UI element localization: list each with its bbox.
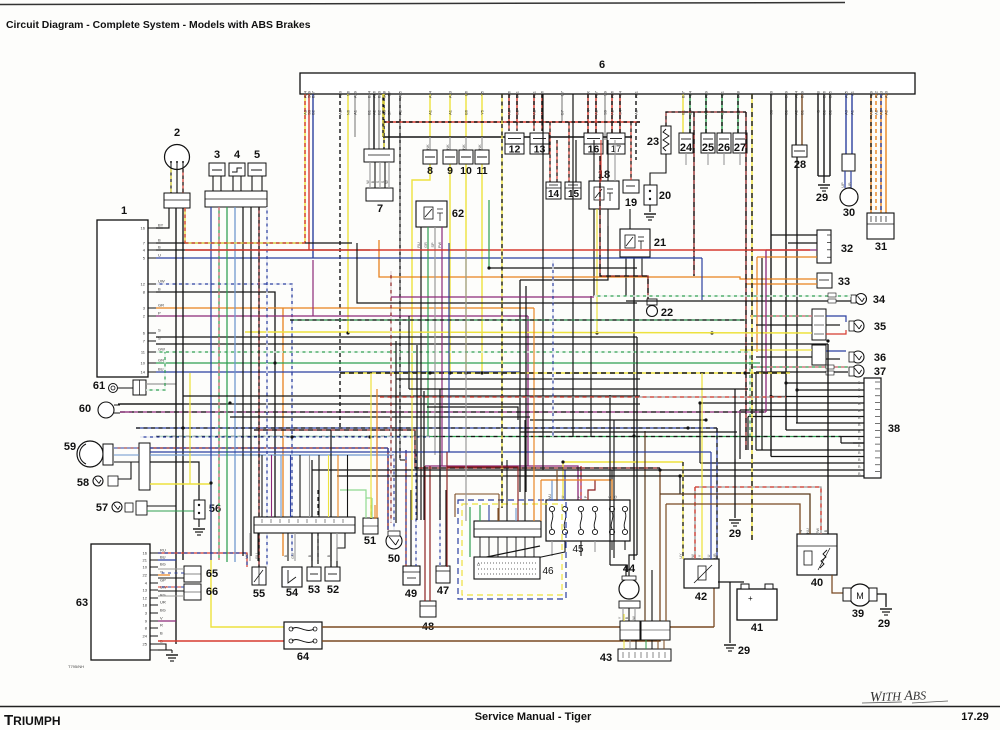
neutral switch 60 body — [98, 402, 114, 418]
orange mid verticals — [376, 389, 378, 518]
svg-text:W: W — [385, 180, 389, 184]
svg-text:32: 32 — [841, 243, 853, 255]
svg-text:S0: S0 — [769, 90, 774, 96]
switch 3 body — [209, 163, 225, 176]
ECU connector 1 body — [97, 220, 148, 377]
oil switch 61 glyph — [109, 384, 118, 393]
svg-text:US: US — [245, 553, 249, 559]
svg-text:17.29: 17.29 — [961, 711, 989, 723]
black riser 396 — [395, 341, 397, 523]
svg-text:62: 62 — [452, 208, 464, 220]
svg-text:A15: A15 — [398, 90, 403, 98]
wire BU from 1 — [156, 371, 520, 373]
wire B short 1 — [156, 242, 352, 244]
ground 29 top right — [818, 184, 830, 186]
svg-text:8: 8 — [427, 165, 433, 177]
yellow feed to 43 — [321, 621, 600, 633]
immobiliser 46 dashed screen inner — [462, 504, 562, 595]
fan resistor 42 body — [684, 559, 719, 588]
wire GN green long — [156, 362, 760, 364]
svg-text:A27: A27 — [594, 90, 599, 98]
wire U from 1 — [156, 257, 702, 259]
svg-text:A6: A6 — [507, 109, 512, 115]
svg-text:G7: G7 — [560, 90, 565, 96]
58 lead — [118, 462, 131, 479]
horn 30 body — [840, 188, 858, 206]
svg-text:24: 24 — [680, 142, 693, 154]
svg-text:29: 29 — [878, 618, 890, 630]
svg-text:B: B — [371, 180, 375, 183]
63 ground wires — [158, 644, 166, 650]
59 output Y — [150, 484, 284, 627]
fuse 10 body — [459, 150, 473, 164]
svg-text:UB: UB — [848, 182, 852, 188]
43 right top leads — [644, 431, 646, 621]
svg-text:A3: A3 — [338, 109, 343, 115]
fuse lower yellow wires — [412, 164, 430, 373]
svg-text:S: S — [158, 336, 161, 341]
47 top leads — [439, 455, 441, 566]
immobiliser 46 body — [474, 557, 540, 579]
svg-text:10: 10 — [460, 165, 472, 177]
svg-text:19: 19 — [625, 197, 637, 209]
headlamp 59 body — [77, 441, 103, 467]
switch 54 body — [282, 567, 302, 587]
pilot lamp 57 — [112, 502, 122, 512]
black run y432 — [520, 431, 737, 433]
black drop x573 — [572, 94, 574, 437]
ground right of 39 — [880, 608, 892, 610]
svg-text:B19: B19 — [800, 90, 805, 98]
clock lamp 50 — [386, 533, 402, 549]
ground feeder 735 — [734, 389, 736, 459]
yellow into 43 — [425, 373, 427, 500]
svg-text:W: W — [691, 554, 695, 558]
svg-text:G4: G4 — [688, 90, 693, 96]
svg-text:S9: S9 — [603, 109, 608, 115]
fuse 13 leads — [533, 122, 535, 131]
svg-text:13: 13 — [534, 144, 546, 156]
ground below 20 — [644, 213, 656, 215]
yellow mid vertical — [370, 373, 372, 518]
svg-text:40: 40 — [811, 577, 823, 589]
ground mid right — [729, 519, 741, 521]
svg-text:G1: G1 — [720, 90, 725, 96]
svg-text:29: 29 — [729, 528, 741, 540]
svg-text:31: 31 — [875, 241, 887, 253]
svg-text:O: O — [614, 495, 618, 498]
svg-text:GR: GR — [424, 242, 428, 248]
relay 21 top lead — [629, 209, 631, 229]
svg-text:26: 26 — [718, 142, 730, 154]
svg-text:A24: A24 — [794, 90, 799, 98]
svg-text:WU: WU — [548, 494, 552, 501]
battery 41 body — [737, 589, 777, 620]
34 feed wires — [750, 295, 851, 297]
svg-text:+: + — [748, 594, 753, 603]
svg-text:5: 5 — [254, 149, 260, 161]
svg-text:B1: B1 — [828, 109, 833, 115]
ABS 38 fan-in wires — [786, 382, 864, 384]
connector 43 strip — [618, 649, 671, 661]
svg-text:B: B — [158, 238, 161, 243]
purple-white riser 389 — [390, 271, 392, 523]
accessory harness dashed — [600, 156, 648, 299]
svg-text:38: 38 — [888, 423, 900, 435]
svg-text:15: 15 — [568, 189, 580, 200]
wire B short 2 — [156, 249, 370, 251]
svg-text:B: B — [160, 631, 163, 636]
svg-text:B: B — [284, 554, 288, 557]
45 top leads — [551, 480, 553, 500]
43 yellow feed — [321, 626, 560, 628]
black rail 34 — [626, 300, 756, 302]
blue dashed rail a — [136, 427, 717, 429]
svg-text:14: 14 — [548, 189, 560, 200]
svg-text:25: 25 — [702, 142, 714, 154]
59 link wires — [114, 447, 139, 449]
blue riser 449 — [448, 243, 450, 452]
ABS connector 38 body — [864, 378, 881, 478]
black run y303 — [357, 243, 637, 303]
49 top leads — [405, 450, 407, 566]
63 wire O — [158, 574, 170, 576]
yellow harness rail — [245, 331, 348, 333]
svg-text:RU: RU — [255, 553, 259, 559]
green dashed run y320 — [290, 319, 745, 321]
connector 55 bodies — [252, 567, 266, 585]
svg-text:66: 66 — [206, 586, 218, 598]
yellow rail long to 35 — [348, 332, 812, 333]
black mid rail a — [183, 395, 640, 397]
svg-text:A1: A1 — [532, 109, 537, 115]
black vertical right pair — [761, 258, 763, 450]
ground below 56 — [193, 528, 205, 530]
svg-text:B: B — [158, 287, 161, 292]
svg-text:63: 63 — [76, 597, 88, 609]
svg-text:Y: Y — [698, 554, 702, 557]
svg-text:24: 24 — [143, 634, 148, 639]
svg-text:GR: GR — [158, 303, 164, 308]
42 top leads — [682, 462, 684, 559]
63 wire R to fusebox — [158, 640, 284, 642]
svg-text:U: U — [707, 554, 711, 557]
45 orange elbow lead — [541, 480, 612, 500]
svg-text:A1: A1 — [353, 109, 358, 115]
svg-text:S9: S9 — [603, 90, 608, 96]
switch 52 body — [325, 567, 340, 581]
svg-text:GN: GN — [158, 358, 164, 363]
blue dashed rail b — [140, 436, 430, 438]
fuse 14 body — [546, 182, 561, 199]
44 connector — [619, 601, 640, 608]
diode 28 lower lead — [796, 157, 798, 423]
connector strip above 46 — [474, 521, 541, 537]
svg-text:O: O — [477, 562, 480, 567]
SP elbow to 49 — [400, 459, 405, 461]
strip upper feeds — [261, 455, 263, 517]
65 leads — [158, 568, 184, 570]
feed rail red — [383, 121, 640, 123]
switch 52-53 risers — [311, 460, 313, 567]
fuse 9 body — [443, 150, 457, 164]
diagnostic connector 66 body — [184, 584, 201, 600]
tail lamp 34 — [856, 294, 867, 305]
fuse 16 body — [584, 133, 603, 154]
svg-text:17: 17 — [611, 144, 622, 155]
clutch diode 7 upper — [364, 149, 394, 162]
strip lower stubs — [249, 533, 251, 561]
svg-text:N: N — [799, 529, 803, 532]
switch 3-5 leads — [212, 176, 214, 191]
svg-text:A6: A6 — [507, 90, 512, 96]
svg-text:A19: A19 — [353, 90, 358, 98]
svg-text:21: 21 — [654, 237, 666, 249]
black centre risers ext — [590, 296, 592, 437]
earth header 29 top — [818, 175, 830, 177]
svg-text:B17: B17 — [681, 90, 686, 98]
svg-text:53: 53 — [308, 584, 320, 596]
svg-text:V: V — [160, 616, 163, 621]
svg-text:BG: BG — [160, 608, 166, 613]
mid ground lead — [734, 459, 736, 518]
svg-text:12: 12 — [141, 282, 146, 287]
svg-text:35: 35 — [874, 321, 886, 333]
strip top leads — [479, 505, 481, 521]
36 feed wires — [740, 349, 812, 351]
45-46 jog wire — [482, 546, 540, 558]
dashed yellow auxiliary run — [751, 94, 753, 540]
svg-text:B: B — [816, 110, 821, 113]
svg-text:50: 50 — [388, 553, 400, 565]
svg-text:NK: NK — [426, 144, 430, 150]
diagnostic connector 65 body — [184, 566, 201, 582]
svg-text:Service Manual - Tiger: Service Manual - Tiger — [475, 711, 592, 723]
svg-text:UB: UB — [713, 553, 717, 559]
57 leads — [147, 505, 176, 507]
svg-text:A13: A13 — [448, 90, 453, 98]
svg-text:34: 34 — [873, 294, 886, 306]
connector 43 left body — [620, 621, 640, 640]
svg-text:B18: B18 — [736, 90, 741, 98]
svg-text:P: P — [584, 495, 588, 498]
svg-text:X: X — [586, 110, 591, 113]
svg-text:S4: S4 — [618, 90, 623, 96]
svg-text:27: 27 — [734, 142, 746, 154]
fuse 26 body — [717, 133, 731, 153]
svg-text:51: 51 — [364, 535, 376, 547]
purple run y297 — [391, 296, 594, 298]
svg-text:B: B — [816, 91, 821, 94]
relay 33 body — [817, 273, 832, 288]
svg-text:29: 29 — [816, 192, 828, 204]
svg-text:BY: BY — [158, 223, 164, 228]
svg-text:4: 4 — [234, 149, 241, 161]
svg-text:30: 30 — [843, 207, 855, 219]
svg-text:NK: NK — [446, 144, 450, 150]
svg-text:A1: A1 — [448, 109, 453, 115]
flasher relay 49 body — [403, 566, 420, 585]
fuse 14 leads — [549, 122, 551, 182]
svg-text:B6: B6 — [464, 109, 469, 115]
svg-text:43: 43 — [600, 652, 612, 664]
fuse 17 body — [607, 133, 625, 154]
63 wire V — [158, 620, 176, 622]
45 purple top lead — [580, 466, 582, 500]
immobiliser 46 dashed screen outer — [458, 500, 566, 599]
brake lamp connector 35 — [812, 309, 826, 340]
switch 53 body — [307, 567, 321, 581]
svg-text:A2: A2 — [540, 109, 545, 115]
svg-text:Y5: Y5 — [480, 90, 485, 96]
connector 43 right body — [641, 621, 670, 640]
svg-text:U: U — [561, 495, 565, 498]
grey-red dashed run y397 — [380, 396, 786, 398]
svg-text:Y5: Y5 — [480, 109, 485, 115]
svg-text:S0: S0 — [769, 109, 774, 115]
diode 19 body — [623, 180, 639, 193]
page top rule — [0, 3, 845, 5]
black mid rail d — [337, 475, 680, 477]
ABS ECU connector 63 body — [91, 544, 150, 660]
svg-text:A20: A20 — [884, 90, 889, 98]
svg-text:UY: UY — [679, 553, 683, 559]
svg-text:47: 47 — [437, 585, 449, 597]
svg-text:29: 29 — [738, 645, 750, 657]
fuse 25 body — [701, 133, 715, 153]
svg-text:A2: A2 — [610, 109, 615, 115]
svg-text:A2: A2 — [594, 109, 599, 115]
svg-text:A19: A19 — [704, 90, 709, 98]
48 top leads — [424, 466, 426, 601]
svg-text:A26: A26 — [610, 90, 615, 98]
svg-text:SP: SP — [387, 91, 392, 97]
42 bottom wire to battery — [701, 588, 703, 593]
svg-text:RU: RU — [417, 242, 421, 248]
fuse 24-27 lower stubs — [685, 153, 687, 165]
svg-text:22: 22 — [661, 307, 673, 319]
fuse 13 body — [530, 133, 549, 154]
black run y379 — [396, 378, 640, 380]
ignition feed dashed — [184, 208, 186, 243]
fuse 15 body — [565, 182, 581, 199]
handwritten WITH ABS note — [870, 688, 927, 705]
46 strip riser brown — [454, 494, 456, 517]
svg-text:A35: A35 — [844, 90, 849, 98]
resistor 23 leads — [666, 112, 746, 126]
svg-text:P: P — [577, 495, 581, 498]
svg-text:A11: A11 — [532, 90, 537, 98]
yellow black-dash rail — [340, 372, 790, 374]
number plate lamp 36 — [852, 351, 864, 363]
svg-text:A1: A1 — [398, 109, 403, 115]
40 to motor brown — [832, 575, 845, 593]
svg-text:A31: A31 — [634, 90, 639, 98]
svg-text:18: 18 — [143, 603, 148, 608]
ground below battery — [724, 644, 736, 646]
black run y389 — [409, 388, 748, 390]
59 output UW — [150, 454, 394, 456]
rail riser — [382, 94, 384, 137]
svg-text:U: U — [158, 253, 161, 258]
svg-text:B15: B15 — [828, 90, 833, 98]
svg-text:7: 7 — [377, 203, 383, 215]
resistor 20 ground lead — [649, 205, 651, 212]
svg-text:10: 10 — [141, 361, 146, 366]
relay 21 bottom leads — [625, 257, 627, 296]
switch pack 45 switches — [549, 506, 554, 511]
black riser 440 — [439, 389, 441, 520]
relay 47 body — [436, 566, 450, 583]
switch 5 body — [248, 163, 266, 176]
37 feed wires — [750, 366, 848, 368]
svg-text:14: 14 — [141, 370, 146, 375]
wire GW green dashed long — [156, 351, 750, 353]
connector 63 pin stubs — [150, 552, 158, 554]
svg-text:22: 22 — [143, 573, 148, 578]
svg-text:54: 54 — [286, 587, 299, 599]
63 wire RU — [158, 553, 247, 567]
horn 30 connector — [842, 154, 855, 171]
63 wire BU — [158, 559, 176, 561]
39 earth wire — [877, 594, 886, 607]
connector below switch 2 — [164, 193, 190, 208]
svg-text:59: 59 — [64, 441, 76, 453]
svg-text:55: 55 — [253, 588, 265, 600]
relay 62 body — [416, 201, 447, 227]
svg-text:41: 41 — [751, 622, 763, 634]
yellow rail mid — [563, 461, 683, 463]
violet left vertical — [175, 560, 177, 621]
40 top leads — [666, 504, 800, 534]
35 feed wires — [750, 315, 812, 317]
svg-text:B: B — [158, 245, 161, 250]
svg-text:SP: SP — [387, 110, 392, 116]
svg-text:23: 23 — [647, 136, 659, 148]
black rail 60 — [118, 403, 640, 405]
svg-text:B: B — [625, 616, 629, 619]
46 strip riser orange b — [533, 308, 535, 521]
feed rail black — [383, 136, 632, 138]
46 strip riser black a — [506, 460, 508, 508]
svg-text:B2: B2 — [515, 109, 520, 115]
connector 51 body — [363, 518, 378, 534]
45 bottom leads — [551, 541, 553, 556]
sidestand switch 22 body — [647, 306, 658, 317]
long connector strip above 55 — [254, 517, 355, 533]
black mid rail c — [312, 469, 660, 471]
clutch diode 7 lower — [366, 188, 393, 201]
wire B from 1 a — [156, 292, 275, 520]
black elbow y407 — [427, 407, 518, 420]
svg-text:49: 49 — [405, 588, 417, 600]
svg-text:NK: NK — [478, 144, 482, 150]
svg-text:B1: B1 — [822, 109, 827, 115]
57 connector — [136, 501, 147, 515]
starter relay 18 body — [589, 181, 619, 209]
svg-text:B1: B1 — [784, 109, 789, 115]
46 strip riser black b — [524, 420, 526, 505]
svg-text:3: 3 — [214, 149, 220, 161]
svg-text:GU: GU — [291, 553, 295, 559]
svg-text:37: 37 — [874, 366, 886, 378]
connector 1 pin stubs — [148, 227, 156, 229]
diode 28 body — [792, 145, 807, 157]
59 output B — [150, 462, 199, 500]
svg-text:G7: G7 — [560, 109, 565, 115]
svg-text:2: 2 — [174, 127, 180, 139]
svg-text:S4: S4 — [618, 109, 623, 115]
